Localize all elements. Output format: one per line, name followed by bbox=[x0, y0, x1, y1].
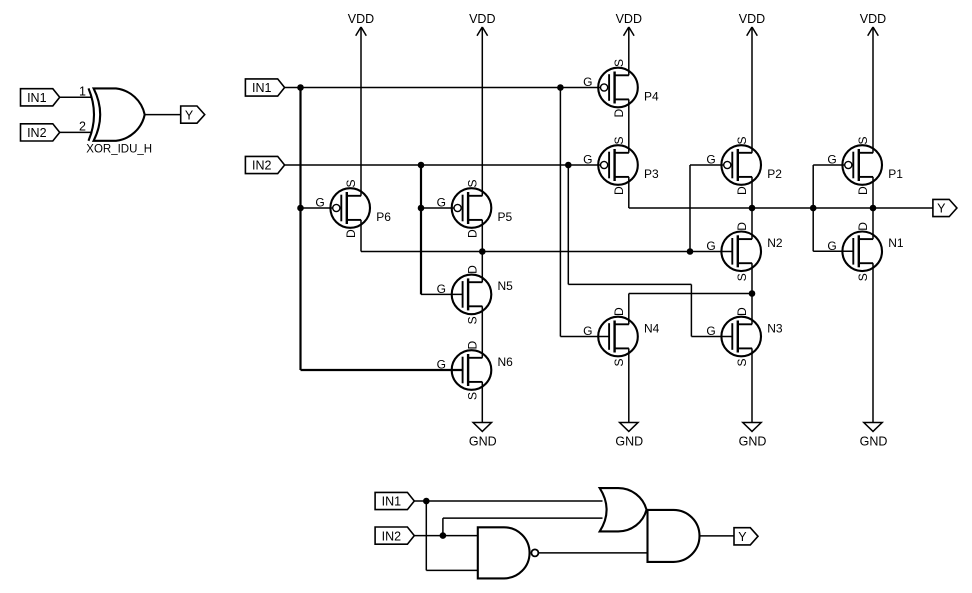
wire VDD4 to P2.S bbox=[751, 27, 753, 153]
wire N3.S to GND bbox=[751, 348, 753, 422]
junction P1.D/N1.D on output net bbox=[870, 205, 877, 212]
transistor N3 (NMOS) bbox=[706, 307, 783, 367]
ground GND 3 bbox=[739, 423, 767, 449]
svg-text:P5: P5 bbox=[498, 210, 513, 224]
wire VDD2 to P5.S bbox=[481, 27, 483, 196]
and gate body bbox=[648, 510, 700, 562]
nand output bubble bbox=[531, 549, 538, 556]
wire IN2 branch vertical to N3.G bbox=[690, 284, 692, 336]
junction gate branch on output net bbox=[810, 205, 817, 212]
port IN2 (symbol) bbox=[21, 124, 60, 141]
svg-text:P3: P3 bbox=[644, 167, 659, 181]
transistor P3 (PMOS) bbox=[583, 136, 659, 195]
junction IN2 branch bbox=[440, 532, 447, 539]
svg-text:N5: N5 bbox=[498, 279, 514, 293]
wire IN2 branch to OR input bbox=[443, 517, 603, 519]
transistor P6 (PMOS) bbox=[315, 179, 391, 238]
wire IN2 branch up bbox=[442, 518, 444, 536]
svg-text:IN1: IN1 bbox=[382, 495, 402, 509]
svg-text:N2: N2 bbox=[767, 236, 783, 250]
wire to P5 gate bbox=[421, 207, 454, 209]
port Y (gate level) bbox=[734, 528, 758, 545]
svg-text:P4: P4 bbox=[644, 89, 659, 103]
power VDD rail 4 bbox=[739, 12, 765, 36]
svg-text:P6: P6 bbox=[376, 210, 391, 224]
wire N5.S to N6.D bbox=[481, 306, 483, 358]
wire to N6 gate bbox=[301, 369, 463, 371]
wire IN1 branch to NAND input bbox=[426, 569, 478, 571]
junction N2 gate line / P2 gate bbox=[687, 248, 694, 255]
ground GND 1 bbox=[469, 423, 497, 449]
wire P2.D down bbox=[751, 177, 753, 208]
transistor P4 (PMOS) bbox=[583, 59, 659, 118]
transistor N5 (NMOS) bbox=[437, 265, 514, 325]
wire P1.D down bbox=[872, 177, 874, 208]
junction P6 gate tap bbox=[297, 205, 304, 212]
port IN2 (gate level) bbox=[375, 527, 414, 544]
transistor P2 (PMOS) bbox=[706, 136, 782, 195]
transistor P1 (PMOS) bbox=[827, 136, 903, 195]
wire P3.D down to output net bbox=[628, 177, 630, 208]
svg-text:XOR_IDU_H: XOR_IDU_H bbox=[86, 144, 152, 156]
wire P4.D to P3.S bbox=[628, 99, 630, 152]
svg-text:2: 2 bbox=[79, 119, 86, 133]
wire N2.S down bbox=[751, 263, 753, 293]
wire P6.D down bbox=[360, 220, 362, 252]
wire XOR output to Y bbox=[145, 114, 181, 116]
wire N1.S to GND bbox=[872, 263, 874, 422]
port IN1 (main) bbox=[245, 79, 284, 96]
wire IN1 to OR input bbox=[414, 500, 602, 502]
wire IN1 to XOR pin 1 bbox=[60, 96, 93, 98]
svg-text:IN2: IN2 bbox=[382, 529, 402, 543]
wire IN2 to NAND input bbox=[414, 535, 478, 537]
wire IN2 branch vertical toward N3 bbox=[567, 165, 569, 284]
wire to N1 gate bbox=[813, 250, 853, 252]
port Y (main) bbox=[933, 199, 957, 216]
or gate body bbox=[600, 488, 647, 531]
junction IN1/branch2 bbox=[557, 84, 564, 91]
wire to N5 gate bbox=[421, 293, 463, 295]
svg-text:Y: Y bbox=[185, 108, 194, 122]
wire IN2 branch vertical to P5.G/N5.G bbox=[420, 165, 422, 294]
xor gate U1 body bbox=[89, 88, 95, 140]
wire VDD1 to P6.S bbox=[360, 27, 362, 196]
wire IN2 branch horizontal toward N3 bbox=[568, 283, 691, 285]
wire N4.S to GND bbox=[628, 348, 630, 422]
wire N2.D up bbox=[751, 208, 753, 239]
wire to P6 gate bbox=[301, 207, 333, 209]
svg-text:IN2: IN2 bbox=[252, 159, 272, 173]
wire N3.D up bbox=[751, 294, 753, 325]
svg-text:N6: N6 bbox=[498, 355, 514, 369]
transistor N2 (NMOS) bbox=[706, 222, 783, 281]
junction IN1 branch bbox=[423, 498, 430, 505]
ground GND 2 bbox=[615, 423, 643, 449]
wire P1/N1 gate branch vertical bbox=[812, 165, 814, 251]
junction N2.S/N4.D/N3.D bbox=[749, 290, 756, 297]
wire AND output to Y bbox=[700, 535, 735, 537]
svg-text:P1: P1 bbox=[888, 167, 903, 181]
wire IN1 branch down bbox=[425, 501, 427, 570]
power VDD rail 2 bbox=[469, 12, 495, 36]
port IN2 (main) bbox=[245, 156, 284, 173]
power VDD rail 1 bbox=[348, 12, 374, 36]
svg-text:N4: N4 bbox=[644, 321, 660, 335]
junction P5/N5 drains bbox=[479, 248, 486, 255]
port IN1 (gate level) bbox=[375, 492, 414, 509]
wire N1.D up bbox=[872, 208, 874, 239]
junction P5 gate tap bbox=[418, 205, 425, 212]
wire output net horizontal to Y bbox=[629, 207, 933, 209]
power VDD rail 5 bbox=[860, 12, 886, 36]
wire net IN2 horizontal bbox=[285, 164, 601, 166]
wire IN1 branch vertical to P6.G/N6.G bbox=[299, 88, 301, 371]
svg-text:P2: P2 bbox=[767, 167, 782, 181]
wire IN2 to XOR pin 2 bbox=[60, 131, 93, 133]
wire NAND output to AND input bbox=[538, 552, 647, 554]
svg-text:IN2: IN2 bbox=[27, 126, 47, 140]
wire VDD5 to P1.S bbox=[872, 27, 874, 153]
junction IN2/branch1 bbox=[418, 162, 425, 169]
nand gate body bbox=[478, 527, 530, 578]
wire P2 gate branch horizontal bbox=[690, 164, 724, 166]
wire internal net P6.D/P5.D/N5.D to N2.G bbox=[361, 251, 732, 253]
port Y (symbol) bbox=[181, 106, 205, 123]
wire N6.S to GND bbox=[481, 382, 483, 423]
wire P5.D to N5.D vertical bbox=[481, 220, 483, 282]
ground GND 4 bbox=[860, 423, 888, 449]
wire IN1 branch vertical to N4.G bbox=[559, 88, 561, 337]
svg-text:N3: N3 bbox=[767, 321, 783, 335]
wire net IN1 horizontal bbox=[285, 87, 601, 89]
transistor N1 (NMOS) bbox=[827, 222, 904, 281]
svg-text:1: 1 bbox=[79, 84, 86, 98]
wire N4.D up and across bbox=[628, 294, 630, 325]
transistor P5 (PMOS) bbox=[437, 179, 513, 238]
svg-text:Y: Y bbox=[738, 530, 747, 544]
wire P2 gate branch vertical bbox=[689, 165, 691, 252]
transistor N6 (NMOS) bbox=[437, 341, 514, 401]
wire to P1 gate bbox=[813, 164, 845, 166]
junction P2.D/N2.D on output net bbox=[749, 205, 756, 212]
junction IN1/branch1 bbox=[297, 84, 304, 91]
wire VDD3 to P4.S bbox=[628, 27, 630, 75]
svg-text:IN1: IN1 bbox=[27, 91, 47, 105]
port IN1 (symbol) bbox=[21, 89, 60, 106]
transistor N4 (NMOS) bbox=[583, 307, 660, 367]
junction IN2/branch2 bbox=[565, 162, 572, 169]
power VDD rail 3 bbox=[616, 12, 642, 36]
svg-text:Y: Y bbox=[937, 202, 946, 216]
svg-text:N1: N1 bbox=[888, 236, 904, 250]
wire to N3 gate bbox=[691, 336, 732, 338]
wire to N4 gate bbox=[560, 336, 609, 338]
svg-text:IN1: IN1 bbox=[252, 81, 272, 95]
